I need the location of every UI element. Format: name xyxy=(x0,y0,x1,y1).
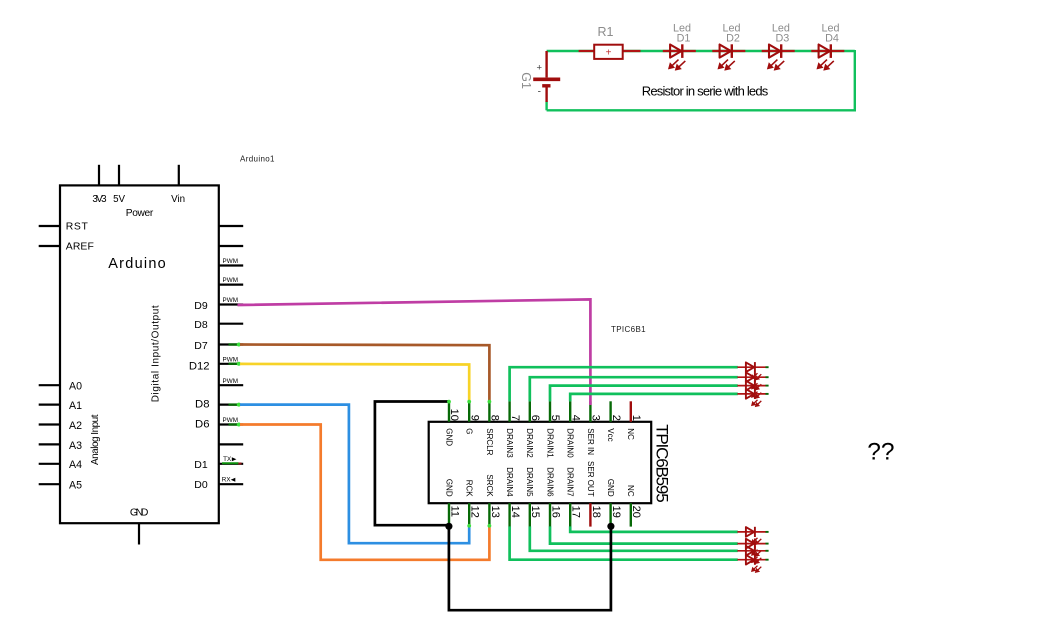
pin GND (bottom) xyxy=(138,523,140,544)
svg-text:A1: A1 xyxy=(69,400,82,412)
svg-text:2: 2 xyxy=(610,415,622,421)
wire D8 to RCK (blue) xyxy=(240,405,469,544)
wire GND pin10 to pin11 (black) xyxy=(375,402,449,526)
svg-text:D3: D3 xyxy=(775,32,789,44)
svg-text:3: 3 xyxy=(590,415,602,421)
svg-text:Analog Input: Analog Input xyxy=(90,414,101,465)
led cluster LED 3 xyxy=(737,381,768,399)
svg-text:D9: D9 xyxy=(194,300,208,312)
pin Vin (top) xyxy=(178,165,180,186)
svg-text:10: 10 xyxy=(448,409,460,421)
svg-text:D6: D6 xyxy=(195,418,209,430)
led D1 xyxy=(663,22,696,69)
svg-text:+: + xyxy=(606,48,612,59)
svg-text:TX: TX xyxy=(223,456,232,463)
svg-text:20: 20 xyxy=(630,506,642,518)
svg-text:G: G xyxy=(465,428,474,434)
svg-text:17: 17 xyxy=(570,506,582,518)
svg-text:DRAIN6: DRAIN6 xyxy=(545,467,554,497)
wire: series loop top (green) xyxy=(547,50,855,52)
led D4 xyxy=(811,22,844,69)
svg-text:19: 19 xyxy=(610,506,622,518)
svg-text:14: 14 xyxy=(509,506,521,518)
svg-text:12: 12 xyxy=(469,506,481,518)
IC bottom pin stubs 11..20 xyxy=(449,503,631,526)
wire DRAIN1 to Led row3 (green) xyxy=(550,386,738,402)
wire DRAIN2 to Led row2 (green) xyxy=(530,377,738,401)
IC U2 TPIC6B595 body xyxy=(429,422,652,503)
svg-text:RX: RX xyxy=(222,477,232,484)
svg-text:Resistor in serie with leds: Resistor in serie with leds xyxy=(642,84,769,99)
svg-text:D8: D8 xyxy=(195,398,209,410)
svg-text:4: 4 xyxy=(569,415,581,421)
svg-text:PWM: PWM xyxy=(223,378,239,385)
svg-text:A3: A3 xyxy=(69,440,82,452)
svg-text:GND: GND xyxy=(130,508,149,519)
svg-text:15: 15 xyxy=(529,506,541,518)
svg-text:RST: RST xyxy=(66,222,89,233)
IC bottom pin numbers xyxy=(448,506,642,518)
svg-text:D1: D1 xyxy=(194,459,208,471)
wire GND pin11 to pin19 (black) xyxy=(449,526,611,610)
PWM labels xyxy=(223,258,239,424)
led cluster LED 4 xyxy=(737,389,768,407)
svg-text:5: 5 xyxy=(549,415,561,421)
svg-text:Arduino: Arduino xyxy=(108,256,166,272)
svg-text:5V: 5V xyxy=(113,194,125,205)
svg-text:Vin: Vin xyxy=(171,194,185,205)
svg-text:D2: D2 xyxy=(726,32,740,44)
svg-text:16: 16 xyxy=(549,506,561,518)
svg-text:RCK: RCK xyxy=(465,480,474,498)
svg-text:GND: GND xyxy=(444,479,453,497)
svg-text:11: 11 xyxy=(448,506,460,517)
wire: series loop bottom xyxy=(547,109,856,111)
wire D7 to SRCLR (brown) xyxy=(240,345,489,402)
svg-text:??: ?? xyxy=(867,438,894,465)
svg-text:TPIC6B1: TPIC6B1 xyxy=(611,325,646,334)
resistor R1 xyxy=(579,25,641,59)
svg-text:G1: G1 xyxy=(519,72,533,89)
svg-text:PWM: PWM xyxy=(223,356,239,363)
svg-text:Vcc: Vcc xyxy=(606,428,615,441)
IC top pin numbers xyxy=(448,409,642,421)
svg-text:GND: GND xyxy=(606,479,615,497)
pin 3V3 (top) xyxy=(98,165,100,186)
svg-text:NC: NC xyxy=(626,485,635,497)
svg-text:DRAIN5: DRAIN5 xyxy=(525,467,534,497)
wire: battery negative lead to bottom wire xyxy=(545,102,547,111)
junction at pin 11 xyxy=(445,523,452,530)
svg-text:D7: D7 xyxy=(194,340,208,352)
svg-text:D0: D0 xyxy=(194,479,208,491)
svg-text:DRAIN0: DRAIN0 xyxy=(566,428,575,458)
svg-text:Power: Power xyxy=(126,208,154,219)
svg-text:NC: NC xyxy=(626,428,635,440)
svg-text:SER OUT: SER OUT xyxy=(586,461,595,497)
led cluster LED 6 xyxy=(737,539,768,557)
svg-text:D4: D4 xyxy=(825,32,839,44)
IC top pin labels xyxy=(444,428,635,458)
led D2 xyxy=(712,22,745,69)
svg-text:D1: D1 xyxy=(677,32,691,44)
svg-text:DRAIN2: DRAIN2 xyxy=(525,428,534,458)
pin 5V (top) xyxy=(118,165,120,186)
wire DRAIN0 to Led row4 (green) xyxy=(570,394,738,402)
svg-text:DRAIN1: DRAIN1 xyxy=(545,428,554,458)
svg-text:DRAIN3: DRAIN3 xyxy=(505,428,514,458)
svg-text:18: 18 xyxy=(590,506,602,518)
svg-text:SRCK: SRCK xyxy=(485,474,494,497)
svg-text:Digital Input/Output: Digital Input/Output xyxy=(150,305,161,402)
svg-text:PWM: PWM xyxy=(223,277,239,284)
svg-text:PWM: PWM xyxy=(223,297,239,304)
svg-text:1: 1 xyxy=(630,415,642,421)
svg-text:13: 13 xyxy=(489,506,501,518)
wire DRAIN5 to Led row7 (green) xyxy=(530,526,738,550)
svg-text:8: 8 xyxy=(489,415,501,421)
wire DRAIN6 to Led row6 (green) xyxy=(550,526,738,543)
led cluster LED 1 xyxy=(737,362,768,380)
svg-text:7: 7 xyxy=(509,415,521,421)
svg-text:3V3: 3V3 xyxy=(92,194,107,205)
svg-text:D8: D8 xyxy=(194,319,208,331)
svg-text:SER IN: SER IN xyxy=(586,428,595,455)
battery G1 xyxy=(519,51,560,102)
led cluster LED 8 xyxy=(737,555,768,573)
led cluster LED 2 xyxy=(737,372,768,390)
wire D9 to SER IN (pink) xyxy=(238,299,591,405)
svg-text:Arduino1: Arduino1 xyxy=(240,154,275,163)
op-amp U: Arduino symbol body xyxy=(60,185,219,523)
IC bottom pin labels xyxy=(444,461,635,497)
svg-text:R1: R1 xyxy=(598,25,614,39)
connection dots on chip pins xyxy=(447,400,491,528)
svg-text:TPIC6B595: TPIC6B595 xyxy=(653,424,672,503)
wire DRAIN4 to Led row8 (green) xyxy=(510,526,738,559)
svg-text:PWM: PWM xyxy=(223,258,239,265)
junction at pin 19 xyxy=(607,523,614,530)
Arduino left pins: RST AREF A0 A1 A2 A3 A4 A5 xyxy=(39,226,60,484)
svg-text:DRAIN7: DRAIN7 xyxy=(566,467,575,497)
svg-text:GND: GND xyxy=(444,428,453,446)
wire D12 to G (yellow) xyxy=(240,364,469,402)
svg-text:9: 9 xyxy=(468,415,480,421)
svg-text:SRCLR: SRCLR xyxy=(485,428,494,455)
svg-text:A4: A4 xyxy=(69,459,82,471)
connected pin tips (green) xyxy=(222,343,242,465)
svg-text:6: 6 xyxy=(529,415,541,421)
svg-text:-: - xyxy=(538,87,541,98)
svg-text:AREF: AREF xyxy=(66,242,94,253)
wire D6 to SRCK (orange) xyxy=(240,425,489,560)
svg-text:A2: A2 xyxy=(69,420,82,432)
IC top pin stubs 10..1 xyxy=(449,401,631,422)
svg-text:A0: A0 xyxy=(69,381,82,393)
svg-text:PWM: PWM xyxy=(223,417,239,424)
svg-text:DRAIN4: DRAIN4 xyxy=(505,467,514,497)
wire DRAIN3 to Led row1 (green) xyxy=(510,367,738,401)
svg-text:+: + xyxy=(537,63,543,74)
led cluster LED 5 xyxy=(737,527,768,545)
labels A0-A5 xyxy=(69,381,82,492)
wire: series loop right side xyxy=(854,50,856,110)
svg-text:A5: A5 xyxy=(69,480,82,492)
wire DRAIN7 to Led row5 (green) xyxy=(570,526,738,532)
svg-text:D12: D12 xyxy=(189,360,210,372)
Arduino right pins xyxy=(219,226,243,484)
led D3 xyxy=(762,22,795,69)
led cluster LED 7 xyxy=(737,546,768,564)
